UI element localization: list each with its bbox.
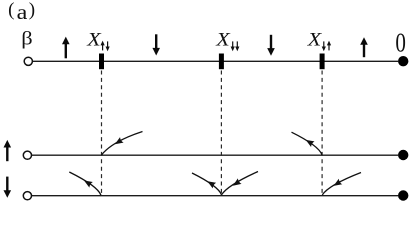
svg-text:X: X	[307, 28, 323, 50]
svg-text:a: a	[17, 1, 28, 24]
svg-text:0: 0	[395, 28, 406, 58]
svg-text:): )	[29, 0, 35, 20]
svg-text:X: X	[86, 28, 102, 50]
svg-text:(: (	[8, 0, 14, 20]
svg-text:β: β	[21, 28, 32, 49]
svg-text:X: X	[215, 28, 231, 50]
